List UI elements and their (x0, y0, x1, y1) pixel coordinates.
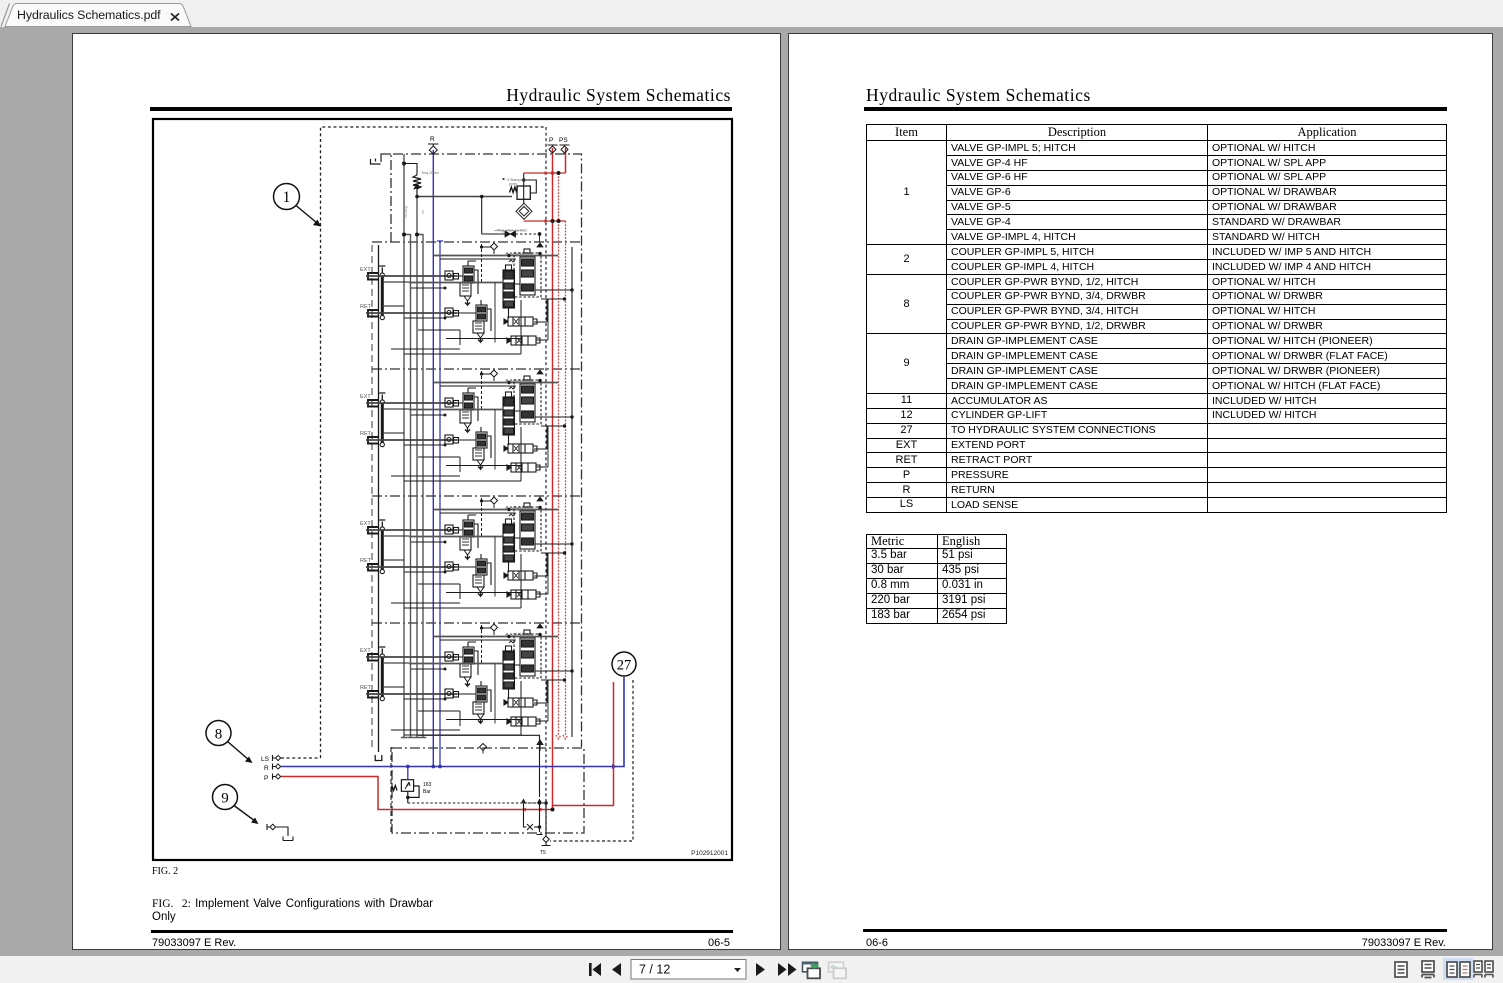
svg-text:T5: T5 (540, 850, 546, 856)
svg-text:ext plug: ext plug (404, 206, 408, 218)
wire relief input (482, 197, 506, 235)
wire dotted right edge (545, 127, 547, 833)
valve section 2 (360, 370, 574, 481)
valve relief 163 bar (391, 780, 539, 803)
two page scrolling icon (1474, 961, 1493, 978)
wire blue return bottom (281, 677, 624, 767)
page box (631, 960, 746, 980)
RIGHT PAGE (788, 33, 1493, 950)
svg-text:Torq 20Nm: Torq 20Nm (421, 171, 439, 175)
first page button (589, 963, 797, 976)
wire LS dotted (281, 757, 321, 759)
valve section 4 (360, 624, 574, 735)
callout circle 1 (274, 184, 322, 227)
svg-text:R: R (264, 765, 269, 772)
wire black right rail (571, 247, 573, 737)
port R (428, 136, 439, 154)
port P2 (264, 774, 281, 783)
svg-text:LS: LS (261, 756, 270, 763)
boundary bottom box (dash-dot) (392, 748, 584, 833)
svg-text:163: 163 (423, 782, 432, 788)
node vent bracket (371, 159, 381, 165)
wire red PS line (565, 148, 567, 173)
svg-text:R: R (430, 136, 435, 143)
callout circle 8 (206, 721, 253, 764)
wire pilot to relief (417, 196, 512, 198)
valve section 3 (360, 497, 574, 608)
svg-text:P: P (264, 775, 268, 782)
next view icon (disabled) (829, 962, 847, 978)
wire T5 drop (521, 799, 550, 857)
wire red pressure bottom (281, 777, 553, 810)
svg-text:Bar: Bar (423, 789, 431, 795)
callout circle 27 (612, 652, 636, 676)
single page layout icon (1395, 962, 1407, 977)
svg-text:7 / 12: 7 / 12 (639, 963, 670, 977)
filter diamond (516, 203, 532, 219)
boundary box item 1 (dotted) (321, 127, 547, 758)
wire item27 dotted (550, 680, 633, 841)
valve section 1 (360, 243, 574, 354)
wire blue return line (432, 150, 434, 767)
wire black riser (375, 245, 382, 761)
boundary valve-bank box (dash-dot) (391, 154, 582, 747)
wire gray bus lines (401, 154, 426, 738)
previous view icon (802, 962, 820, 979)
valve main relief U1 (517, 186, 530, 199)
wire dashed bus (390, 747, 392, 833)
valve relief spring (413, 175, 421, 196)
svg-text:P102912001: P102912001 (691, 850, 728, 857)
svg-text:9: 9 (221, 791, 229, 807)
wire pilot loop (524, 180, 537, 193)
tab bar (0, 0, 1503, 27)
continuous scrolling icon (1422, 961, 1434, 978)
svg-text:ports: ports (509, 182, 517, 186)
prev page (612, 963, 621, 976)
wire red feeds (524, 148, 566, 221)
svg-text:1: 1 (283, 189, 291, 206)
port LS (261, 755, 281, 763)
port P (548, 137, 558, 153)
callout circle 9 (213, 785, 259, 825)
valve bleed X (505, 231, 516, 237)
wire red P line (552, 148, 554, 808)
svg-text:8: 8 (215, 727, 223, 743)
last page: double arrow (778, 963, 787, 976)
wire tank run (418, 735, 540, 797)
wire blue feed to 163bar (407, 767, 409, 780)
two page layout icon (selected) (1443, 958, 1473, 980)
wire section dividers (372, 242, 582, 623)
svg-text:P: P (549, 137, 553, 144)
port PS (559, 137, 570, 153)
frame of FIG.2 drawing (153, 119, 732, 860)
LEFT PAGE (72, 33, 781, 950)
node bottom boundary markers (480, 740, 543, 754)
wire spring feed (404, 164, 417, 176)
svg-text:PS: PS (559, 137, 568, 144)
next page (756, 963, 765, 976)
svg-text:27: 27 (617, 658, 632, 674)
wire red mid line (556, 173, 561, 739)
wire blue second line (437, 241, 443, 767)
port R2 (264, 764, 281, 773)
svg-text:ret: ret (421, 210, 425, 214)
bottom toolbar (0, 956, 1503, 983)
drain symbol item 9 (267, 824, 293, 841)
